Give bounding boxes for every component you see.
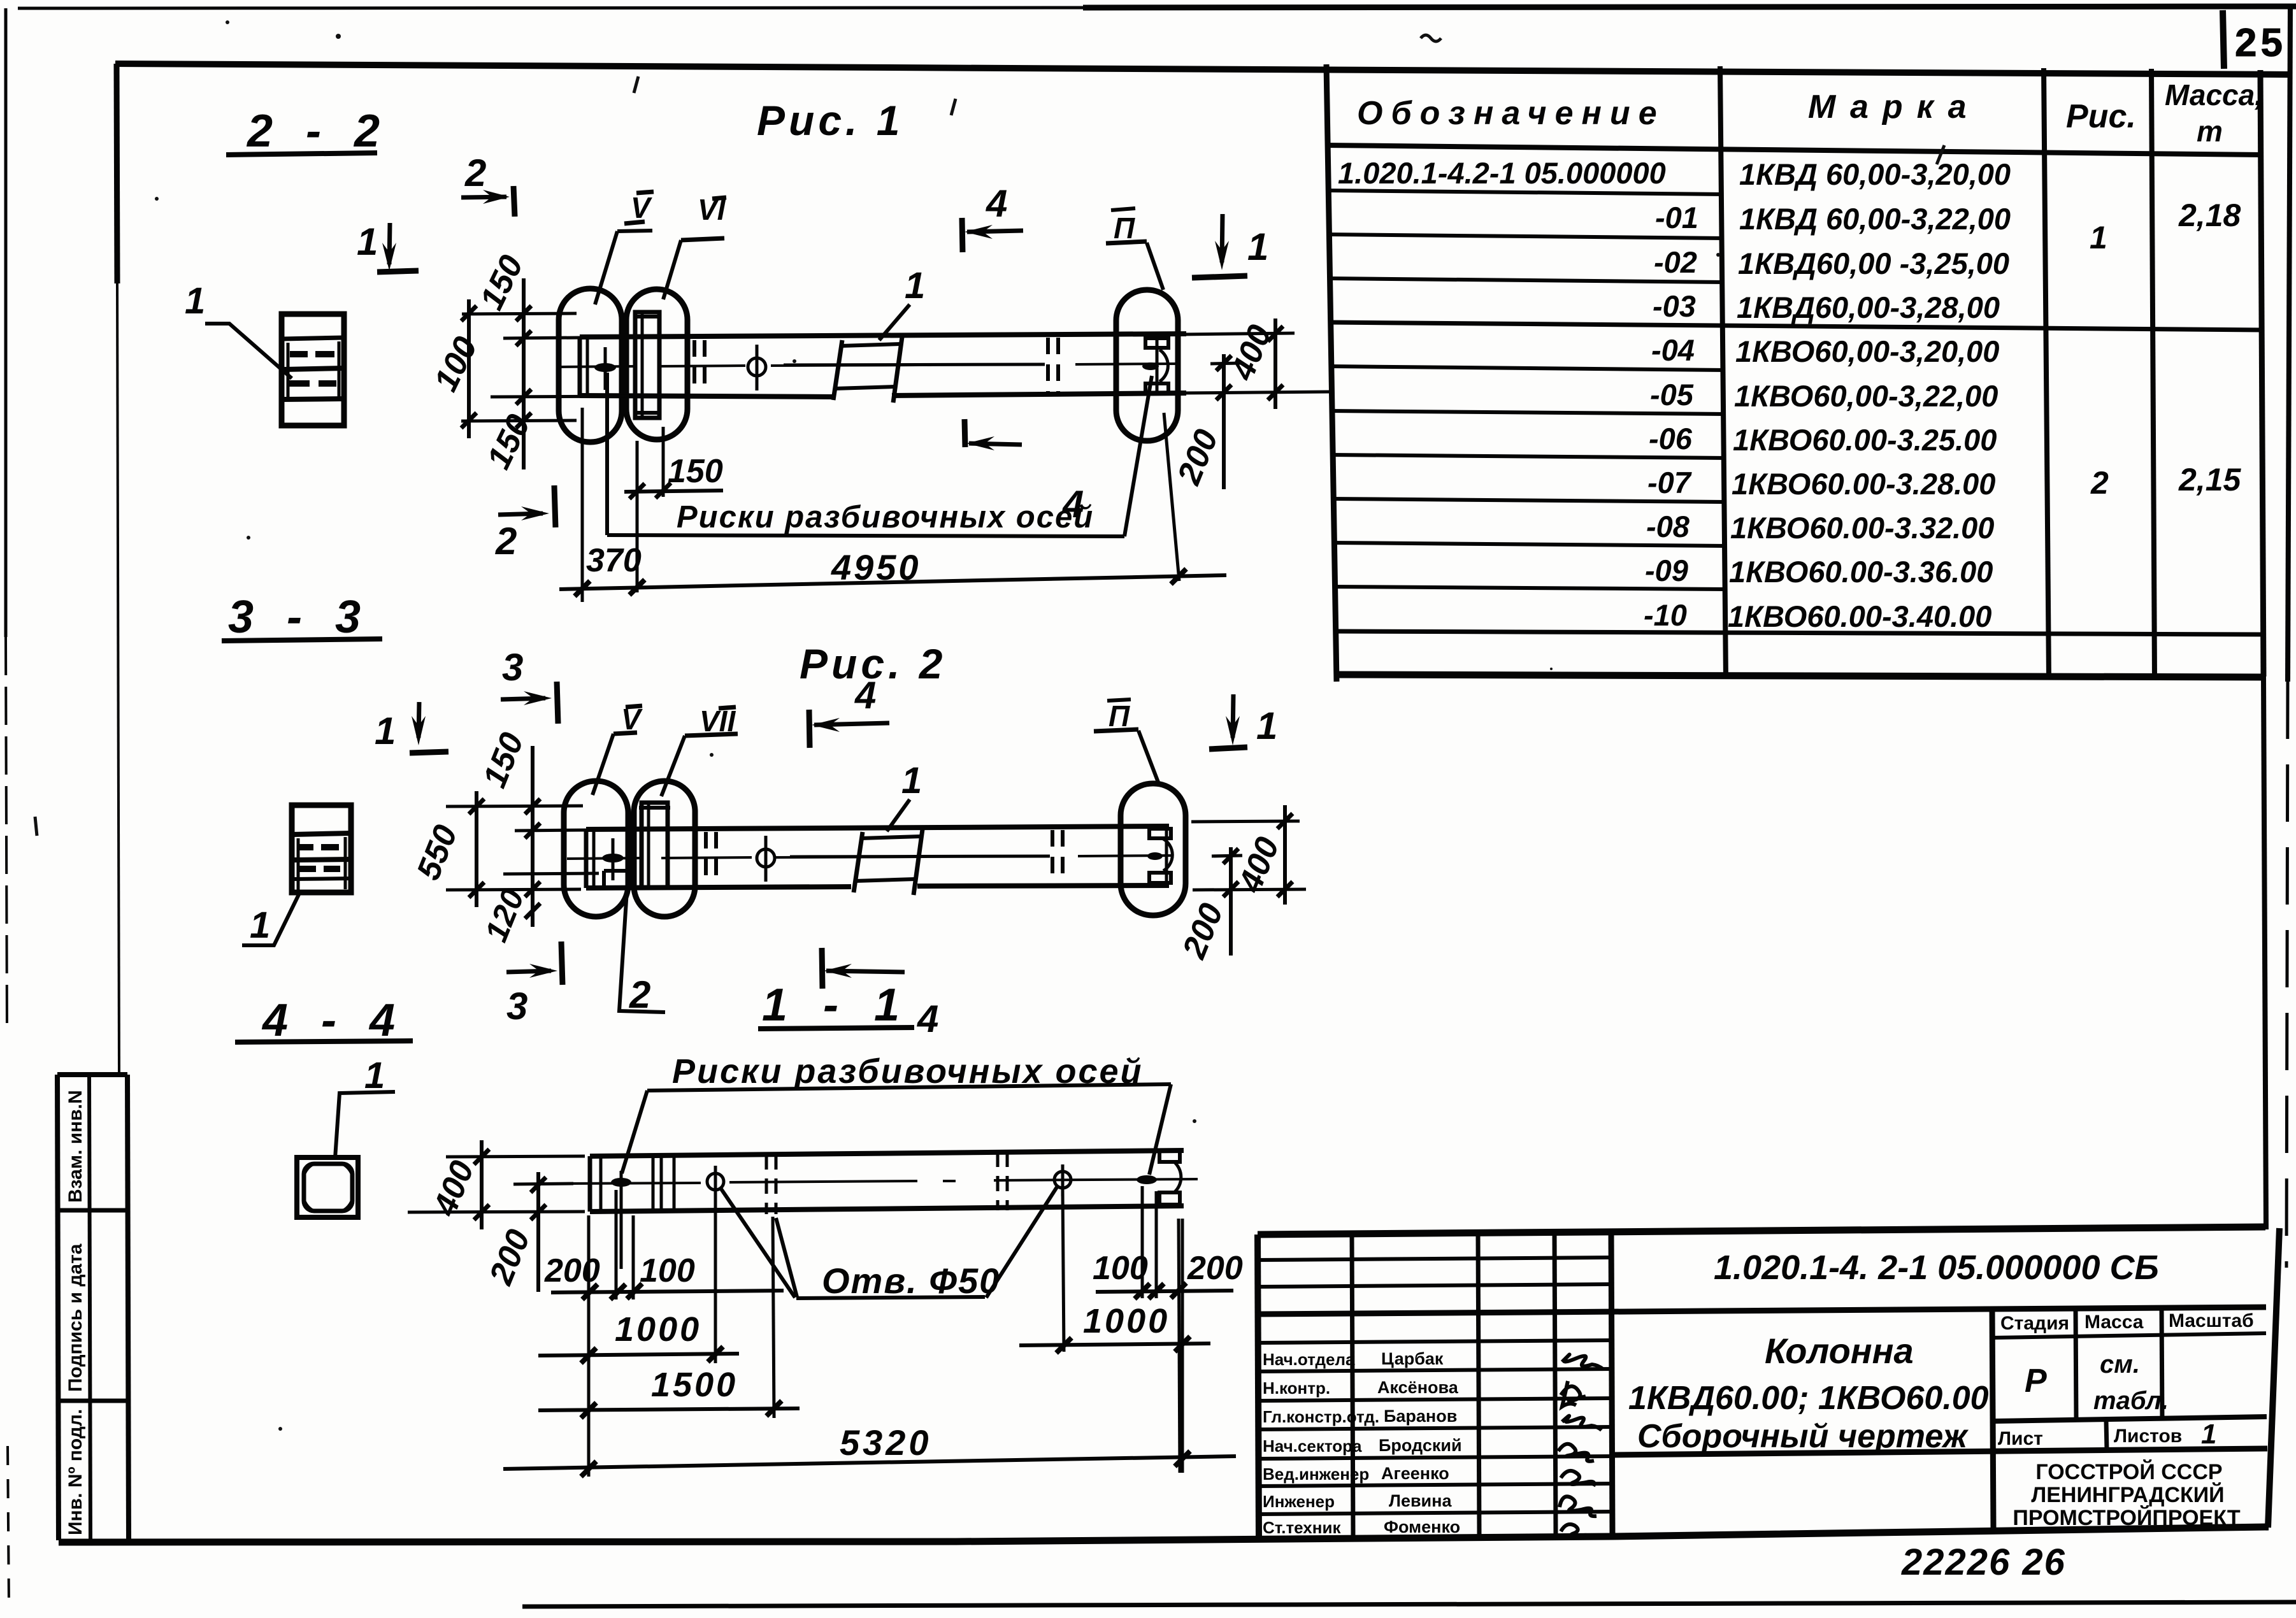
- svg-text:100: 100: [1093, 1250, 1148, 1287]
- fig2 step detail lower-left: [604, 871, 635, 887]
- table rows text: [1338, 156, 2011, 633]
- fig1 section mark 2 bottom: [495, 485, 556, 562]
- fig1 callout II: [1106, 208, 1163, 290]
- fig1 stadium detail V: [559, 289, 622, 442]
- fig1 left dim line 150/150: [516, 278, 531, 469]
- svg-text:1: 1: [185, 280, 205, 322]
- fig2 callout II: [1094, 699, 1158, 782]
- view 1-1 hole extension lines left: [589, 1190, 774, 1477]
- signatures squiggles: [1558, 1354, 1604, 1538]
- svg-text:Колонна: Колонна: [1765, 1331, 1914, 1371]
- fig2 leader label 1 (break): [887, 760, 922, 831]
- table group values: [2090, 197, 2242, 501]
- view 1-1 axis line: [561, 1179, 1198, 1184]
- drawing frame bottom: [59, 1527, 2269, 1542]
- svg-text:1: 1: [375, 710, 396, 752]
- svg-text:1000: 1000: [615, 1310, 701, 1349]
- svg-text:Масштаб: Масштаб: [2169, 1310, 2254, 1331]
- view 1-1 dim 400 left: [408, 1140, 585, 1229]
- svg-text:Масса: Масса: [2084, 1312, 2144, 1333]
- svg-text:25: 25: [2235, 21, 2286, 65]
- svg-text:400: 400: [1224, 320, 1279, 385]
- title block stage labels: [1998, 1310, 2254, 1449]
- svg-text:550: 550: [410, 820, 464, 885]
- svg-text:200: 200: [1187, 1250, 1243, 1287]
- view 1-1 riski text and leaders: [622, 1052, 1171, 1175]
- svg-text:1КВД 60,00-3,20,00: 1КВД 60,00-3,20,00: [1739, 157, 2011, 191]
- svg-text:ПРОМСТРОЙПРОЕКТ: ПРОМСТРОЙПРОЕКТ: [2013, 1505, 2240, 1530]
- svg-text:100: 100: [640, 1252, 695, 1289]
- view 1-1 right extension lines: [1063, 1186, 1180, 1473]
- view 1-1 dim 1000 right: [1019, 1302, 1210, 1353]
- view 1-1 dim 5320 bottom: [503, 1219, 1236, 1477]
- title block left rows: [1258, 1257, 2266, 1514]
- fig2 right dimension extension lines: [1191, 821, 1306, 890]
- svg-text:150: 150: [480, 409, 538, 475]
- svg-text:1: 1: [905, 265, 925, 306]
- svg-text:200: 200: [482, 1224, 538, 1290]
- svg-text:т: т: [2197, 115, 2223, 148]
- svg-text:1КВД60.00; 1КВО60.00: 1КВД60.00; 1КВО60.00: [1628, 1380, 1989, 1417]
- svg-text:-10: -10: [1644, 598, 1687, 632]
- svg-text:1: 1: [901, 760, 922, 801]
- fig1 riski callout: [607, 373, 1152, 536]
- fig1 dashed pair right: [1048, 338, 1058, 392]
- section element 3-3: [292, 805, 351, 892]
- fig2 column bar outline: [586, 826, 1169, 888]
- fig1 dim 200 right: [1170, 354, 1231, 490]
- svg-text:1: 1: [1247, 226, 1268, 268]
- svg-text:-05: -05: [1650, 378, 1694, 412]
- svg-text:2,18: 2,18: [2178, 197, 2241, 233]
- svg-text:2 - 2: 2 - 2: [246, 106, 390, 157]
- paper edge bottom-right line: [522, 1602, 2296, 1607]
- fig2 section mark 3 bottom: [506, 941, 563, 1027]
- fig1 section mark 1 top-left: [357, 220, 419, 272]
- fig2 dashed pair left: [706, 832, 716, 885]
- fig2 left dimension extension lines: [446, 806, 599, 890]
- svg-text:1.020.1-4.2-1 05.000000: 1.020.1-4.2-1 05.000000: [1338, 156, 1666, 190]
- fig1 left dimension extension lines: [461, 313, 631, 421]
- svg-text:2: 2: [2090, 465, 2109, 501]
- svg-text:150: 150: [476, 727, 531, 792]
- svg-text:1КВД60,00-3,28,00: 1КВД60,00-3,28,00: [1737, 290, 2000, 324]
- fig2 stadium detail VII: [634, 781, 695, 917]
- svg-text:1КВД60,00 -3,25,00: 1КВД60,00 -3,25,00: [1738, 247, 2009, 280]
- fig2 leader label 2: [619, 880, 665, 1016]
- svg-text:3: 3: [502, 646, 523, 689]
- drawing frame right: [2286, 8, 2290, 1268]
- svg-text:1: 1: [2090, 220, 2107, 255]
- svg-text:-01: -01: [1655, 201, 1698, 234]
- view 1-1 dim 200/100 left: [544, 1252, 784, 1299]
- svg-text:-04: -04: [1651, 333, 1695, 367]
- svg-text:Масса,: Масса,: [2165, 78, 2263, 111]
- view 1-1 left end verticals: [653, 1157, 674, 1211]
- svg-text:Р: Р: [2025, 1363, 2047, 1400]
- fig1 column bar outline: [580, 334, 1186, 397]
- fig2 section mark 1 top-right: [1209, 694, 1277, 749]
- title block names: [1377, 1349, 1462, 1536]
- fig1 bottom dim chain 370 / 4950: [559, 408, 1226, 602]
- svg-text:4: 4: [854, 674, 876, 717]
- fig2 break symbol: [854, 829, 922, 895]
- fig1 dim 150 plate (below VI): [624, 427, 723, 592]
- scan speckles: [155, 20, 1720, 1431]
- view 1-1 dim 200 left: [482, 1172, 573, 1292]
- view 1-1 end bracket right: [1159, 1151, 1181, 1205]
- fig2 section mark 4 bottom: [822, 948, 938, 1040]
- svg-text:Стадия: Стадия: [2000, 1313, 2069, 1334]
- svg-text:Аксёнова: Аксёнова: [1377, 1378, 1459, 1397]
- fig1 axis dash-dot line: [561, 364, 1176, 367]
- svg-text:Баранов: Баранов: [1384, 1407, 1457, 1426]
- svg-text:ГОССТРОЙ СССР: ГОССТРОЙ СССР: [2035, 1459, 2222, 1484]
- view 1-1 dim 1000 left: [538, 1310, 739, 1363]
- fig1 stadium detail II right: [1116, 290, 1178, 441]
- title block left column verticals: [1352, 1233, 1612, 1536]
- svg-text:Обозначение: Обозначение: [1357, 95, 1665, 132]
- fig2 section mark 4 top: [809, 674, 889, 748]
- svg-text:4: 4: [917, 998, 938, 1040]
- view 1-1 left riska bolt: [611, 1178, 631, 1187]
- svg-text:Агеенко: Агеенко: [1381, 1464, 1449, 1483]
- view 1-1 bar outline: [590, 1150, 1184, 1212]
- svg-text:1: 1: [364, 1055, 385, 1096]
- heading 3-3: [222, 592, 382, 643]
- svg-text:Инженер: Инженер: [1263, 1492, 1335, 1511]
- drawing frame left: [117, 64, 119, 1077]
- svg-text:Листов: Листов: [2114, 1426, 2182, 1447]
- svg-text:5320: 5320: [840, 1422, 932, 1463]
- sheet number box 25: [2223, 10, 2286, 69]
- svg-text:Фоменко: Фоменко: [1384, 1517, 1460, 1536]
- fig1 dim 400 right: [1224, 319, 1283, 409]
- svg-text:П: П: [1109, 699, 1130, 733]
- fig1 section mark 4 bottom: [965, 419, 1084, 526]
- svg-text:V: V: [631, 191, 652, 224]
- svg-text:22226 26: 22226 26: [1901, 1542, 2066, 1583]
- fig1 break symbol: [833, 337, 902, 403]
- svg-text:200: 200: [544, 1252, 600, 1289]
- view 1-1 dim 1500 left: [538, 1366, 800, 1418]
- fig1 bracket in II: [1142, 338, 1168, 394]
- view 1-1 right riska bolt: [1137, 1175, 1157, 1184]
- svg-text:1: 1: [1256, 705, 1277, 747]
- svg-text:табл.: табл.: [2093, 1387, 2169, 1415]
- drawing frame top: [115, 64, 2290, 75]
- specification table grid: [1326, 64, 2266, 1229]
- title block stage section grid: [1612, 1307, 2267, 1528]
- svg-text:Рис. 1: Рис. 1: [757, 97, 903, 144]
- svg-text:370: 370: [586, 542, 642, 579]
- title block outer borders: [1258, 1227, 2279, 1538]
- svg-text:Подпись и дата: Подпись и дата: [65, 1243, 86, 1392]
- svg-text:Лист: Лист: [1998, 1428, 2043, 1449]
- svg-text:1КВО60.00-3.40.00: 1КВО60.00-3.40.00: [1728, 599, 1991, 633]
- heading 1-1: [758, 980, 914, 1031]
- svg-text:Вед.инженер: Вед.инженер: [1263, 1464, 1369, 1484]
- label 1 for 2-2: [185, 280, 292, 378]
- title block theme: Колонна: [1628, 1331, 1989, 1455]
- svg-text:1 - 1: 1 - 1: [762, 980, 911, 1031]
- svg-text:-08: -08: [1646, 510, 1690, 543]
- svg-text:4: 4: [986, 182, 1007, 225]
- fig1 dashed pair left: [694, 340, 705, 394]
- paper edge left line: [6, 8, 9, 1605]
- svg-text:1КВО60.00-3.36.00: 1КВО60.00-3.36.00: [1729, 555, 1993, 589]
- svg-text:-03: -03: [1653, 289, 1696, 323]
- svg-text:Царбак: Царбак: [1381, 1349, 1444, 1368]
- svg-text:1КВО60.00-3.25.00: 1КВО60.00-3.25.00: [1733, 423, 1997, 457]
- label 1 for 3-3: [242, 891, 301, 946]
- fig1 section mark 1 top-right: [1192, 214, 1268, 278]
- svg-text:150: 150: [668, 453, 723, 490]
- svg-text:-06: -06: [1649, 422, 1693, 455]
- svg-text:Марка: Марка: [1808, 89, 1981, 125]
- svg-text:-02: -02: [1654, 245, 1697, 279]
- fig2 section mark 1 top-left: [375, 702, 448, 753]
- section element 2-2: [282, 314, 344, 426]
- svg-text:120: 120: [478, 884, 531, 947]
- svg-text:200: 200: [1170, 424, 1226, 490]
- fig2 bracket in II: [1147, 829, 1172, 883]
- svg-text:ЛЕНИНГРАДСКИЙ: ЛЕНИНГРАДСКИЙ: [2031, 1482, 2224, 1507]
- svg-text:3 - 3: 3 - 3: [228, 592, 371, 643]
- svg-text:1500: 1500: [651, 1366, 738, 1404]
- fig1 right dimension extension lines: [1180, 333, 1330, 393]
- svg-text:Риски разбивочных осей: Риски разбивочных осей: [677, 500, 1094, 534]
- svg-text:Левина: Левина: [1389, 1491, 1452, 1510]
- stage values: [2025, 1350, 2216, 1450]
- svg-text:Взам. инв.N: Взам. инв.N: [65, 1090, 86, 1203]
- fig1 section mark 4 top: [962, 182, 1023, 252]
- organisation name: [2013, 1459, 2240, 1530]
- svg-text:-09: -09: [1645, 554, 1688, 587]
- fig1 left dim line 100: [461, 299, 477, 438]
- svg-text:Рис.: Рис.: [2066, 98, 2136, 135]
- svg-text:1КВО60,00-3,22,00: 1КВО60,00-3,22,00: [1734, 379, 1998, 413]
- fig2 dim 550: [410, 791, 484, 907]
- fig1 section mark 2 top: [461, 152, 515, 217]
- fig2 stadium detail II right: [1121, 784, 1186, 915]
- fig1 leader label 1 (break): [879, 265, 925, 340]
- fig2 dim 200 right: [1175, 847, 1238, 964]
- fig2 anchor plate in VII: [639, 803, 670, 887]
- svg-text:Гл.констр.отд.: Гл.констр.отд.: [1263, 1407, 1379, 1426]
- svg-text:Инв. Nº подл.: Инв. Nº подл.: [65, 1409, 86, 1535]
- svg-text:Н.контр.: Н.контр.: [1263, 1378, 1330, 1398]
- heading 2-2: [226, 106, 390, 157]
- svg-text:4950: 4950: [831, 547, 921, 587]
- view 1-1 dim 100/200 right: [1093, 1250, 1243, 1299]
- svg-text:100: 100: [427, 331, 485, 397]
- fig1 callout V: [595, 191, 654, 304]
- fig1 callout VI: [663, 193, 726, 299]
- svg-text:Ст.техник: Ст.техник: [1263, 1518, 1341, 1537]
- svg-text:П: П: [1114, 211, 1135, 245]
- svg-text:4 - 4: 4 - 4: [261, 995, 405, 1046]
- svg-text:1.020.1-4. 2-1 05.000000 СБ: 1.020.1-4. 2-1 05.000000 СБ: [1714, 1249, 2159, 1287]
- svg-text:Отв. Ф50: Отв. Ф50: [822, 1261, 1000, 1301]
- svg-text:2,15: 2,15: [2178, 462, 2242, 498]
- fig2 axis dash-dot line: [567, 856, 1173, 859]
- svg-text:2: 2: [495, 520, 517, 562]
- svg-text:-07: -07: [1647, 466, 1692, 499]
- svg-text:1КВО60.00-3.28.00: 1КВО60.00-3.28.00: [1732, 467, 1995, 501]
- fig1 axis bolt in V: [594, 363, 616, 372]
- svg-text:1: 1: [2201, 1419, 2216, 1450]
- svg-text:Нач.отдела: Нач.отдела: [1263, 1350, 1355, 1369]
- svg-text:1: 1: [250, 905, 270, 946]
- svg-text:см.: см.: [2100, 1350, 2140, 1378]
- svg-text:1000: 1000: [1083, 1302, 1170, 1340]
- fig2 centre riska circle: [757, 836, 775, 882]
- label 1 for 4-4: [335, 1055, 395, 1158]
- svg-text:Бродский: Бродский: [1379, 1436, 1462, 1455]
- fig1 anchor plate in VI: [633, 312, 661, 418]
- svg-text:200: 200: [1175, 898, 1231, 964]
- fig2 dashed pair right: [1052, 830, 1063, 885]
- view 1-1 right dashed pair: [998, 1152, 1007, 1210]
- paper edge top line: [18, 6, 2296, 8]
- svg-text:1: 1: [357, 220, 378, 263]
- svg-text:2: 2: [464, 152, 486, 194]
- section element 4-4: [297, 1157, 358, 1217]
- fig2 dim 150 / 120: [476, 727, 540, 947]
- view 1-1 Отв Ф50 callout: [721, 1186, 1058, 1301]
- fig2 callout V: [592, 703, 643, 795]
- fig2 callout VII: [661, 705, 738, 796]
- fig2 dim 400 right: [1231, 805, 1293, 905]
- heading 4-4: [235, 995, 413, 1046]
- svg-text:1КВО60,00-3,20,00: 1КВО60,00-3,20,00: [1735, 334, 1999, 368]
- view 1-1 hole circle left: [707, 1166, 724, 1199]
- fig2 stadium detail V: [564, 781, 628, 917]
- fig2 axis bolt in V: [602, 854, 624, 863]
- svg-text:Нач.сектора: Нач.сектора: [1263, 1436, 1362, 1456]
- title block role labels: [1263, 1350, 1379, 1537]
- svg-text:1КВД 60,00-3,22,00: 1КВД 60,00-3,22,00: [1739, 202, 2011, 236]
- left strip vertical labels: [65, 1090, 86, 1535]
- fig1 stadium detail VI: [626, 289, 687, 440]
- left vertical strip grid: [57, 1075, 129, 1540]
- svg-text:1КВО60.00-3.32.00: 1КВО60.00-3.32.00: [1730, 511, 1994, 545]
- view 1-1 middle dashed pair: [766, 1154, 776, 1214]
- fig2 section mark 3 top: [501, 646, 558, 724]
- table header text: [1357, 78, 2263, 148]
- view 1-1 hole circle right: [1054, 1164, 1071, 1196]
- fig1 centre riska circle: [748, 345, 766, 390]
- svg-text:3: 3: [506, 985, 527, 1027]
